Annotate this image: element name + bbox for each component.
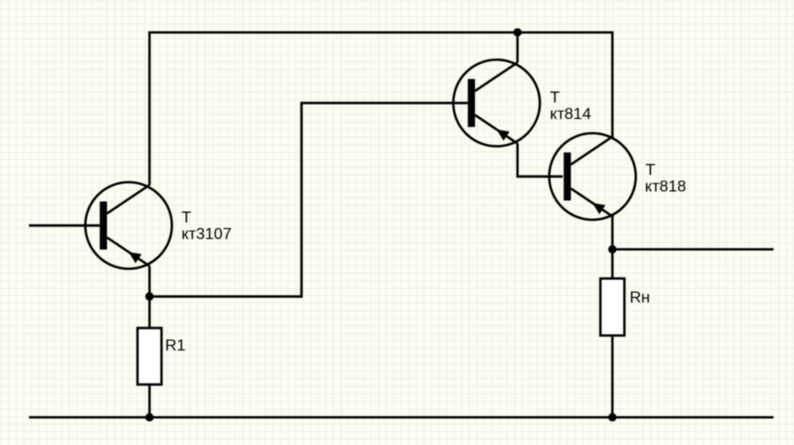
svg-text:R1: R1 bbox=[165, 338, 186, 355]
svg-text:кт814: кт814 bbox=[550, 106, 591, 123]
svg-text:кт3107: кт3107 bbox=[182, 226, 232, 243]
svg-text:T: T bbox=[550, 90, 560, 107]
svg-text:кт818: кт818 bbox=[645, 178, 686, 195]
svg-text:T: T bbox=[182, 210, 192, 227]
svg-text:Rн: Rн bbox=[630, 290, 650, 307]
svg-text:T: T bbox=[646, 162, 656, 179]
